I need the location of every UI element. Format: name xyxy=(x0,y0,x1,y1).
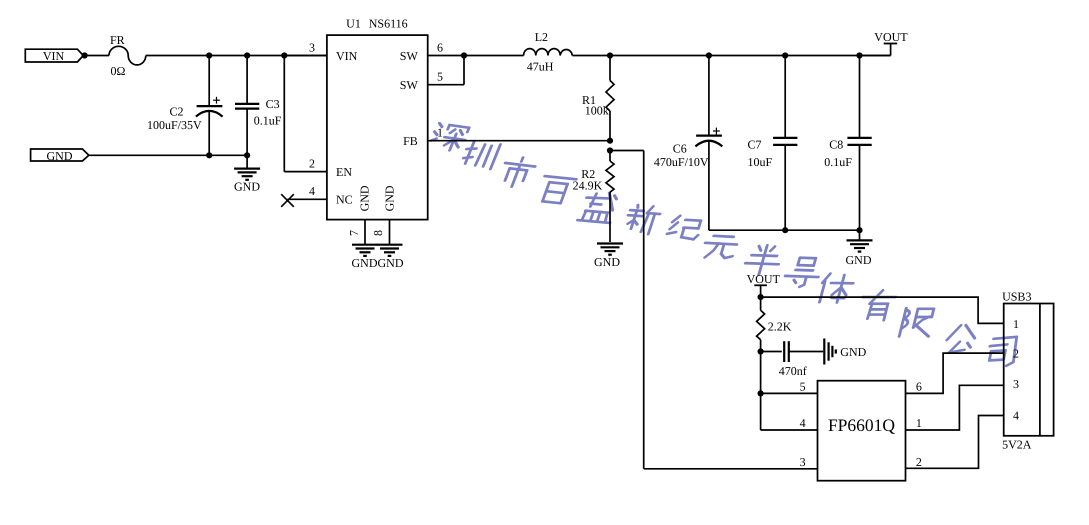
svg-text:5: 5 xyxy=(800,380,806,394)
node C8 top xyxy=(856,52,862,58)
port GND (input) xyxy=(31,149,89,163)
capacitor C6 xyxy=(654,56,722,231)
connector USB3 box xyxy=(1002,289,1054,451)
watermark char 7 (ji) xyxy=(666,215,704,239)
watermark char 14 (gong) xyxy=(944,325,978,353)
svg-text:4: 4 xyxy=(309,184,315,198)
wire FB to FP pin3 vertical xyxy=(643,151,645,469)
svg-text:0Ω: 0Ω xyxy=(111,64,126,78)
watermark char 15 (si) xyxy=(986,337,1019,367)
node C2 bottom xyxy=(206,152,212,158)
pin 4 wire FP xyxy=(761,416,818,430)
node C7 bottom xyxy=(782,227,788,233)
node after VIN xyxy=(82,52,88,58)
svg-text:4: 4 xyxy=(800,416,806,430)
svg-text:6: 6 xyxy=(437,40,443,54)
watermark char 5 (sheng) xyxy=(578,191,620,223)
svg-text:FB: FB xyxy=(403,134,418,148)
svg-text:2: 2 xyxy=(309,156,315,170)
pin label GND vertical 1 xyxy=(357,185,371,211)
svg-text:GND: GND xyxy=(382,185,396,211)
watermark char 9 (ban) xyxy=(742,245,784,276)
USB pin 1 xyxy=(1013,317,1019,331)
node EN branch xyxy=(281,52,287,58)
node VOUT branch xyxy=(758,294,764,300)
resistor FR (fuse 0ohm) xyxy=(109,33,146,78)
pin 6 SW wire xyxy=(400,40,464,63)
node cap branch xyxy=(758,348,764,354)
wire top rail to VOUT xyxy=(610,55,891,57)
ground sideways xyxy=(824,339,866,365)
wire L2 to node xyxy=(572,55,610,57)
pin 3 VIN wire xyxy=(284,40,357,63)
wire SW to L2 xyxy=(464,55,524,57)
pin 4 NC wire xyxy=(288,184,353,207)
node R2 top xyxy=(607,147,613,153)
ground under C3 xyxy=(234,155,260,193)
svg-text:1: 1 xyxy=(916,416,922,430)
svg-text:GND: GND xyxy=(594,255,620,269)
watermark char 4 (bai) xyxy=(536,176,577,204)
capacitor C8 xyxy=(824,56,871,231)
svg-text:10uF: 10uF xyxy=(748,155,773,169)
pin 5 wire FP xyxy=(761,380,818,394)
svg-text:470uF/10V: 470uF/10V xyxy=(654,155,709,169)
svg-text:FR: FR xyxy=(110,33,125,47)
svg-text:0.1uF: 0.1uF xyxy=(824,155,852,169)
svg-text:VOUT: VOUT xyxy=(747,272,781,286)
resistor R 2.2K xyxy=(757,297,792,351)
svg-text:5: 5 xyxy=(437,70,443,84)
wire EN drop xyxy=(283,56,285,172)
pin 1 FB wire xyxy=(403,126,610,149)
svg-text:NS6116: NS6116 xyxy=(369,16,408,30)
wire GND rail xyxy=(89,154,247,156)
svg-text:C7: C7 xyxy=(748,138,762,152)
wire down to pin4 xyxy=(760,393,762,430)
svg-text:EN: EN xyxy=(336,165,352,179)
node pin5 branch xyxy=(758,390,764,396)
node C3 bottom xyxy=(244,152,250,158)
wire FB to FP pin3 horizontal xyxy=(644,468,818,470)
node L2-R1 xyxy=(607,52,613,58)
svg-text:FP6601Q: FP6601Q xyxy=(828,415,895,435)
capacitor C7 xyxy=(748,56,798,231)
svg-text:2.2K: 2.2K xyxy=(768,319,792,333)
node SW join xyxy=(461,52,467,58)
resistor R1 xyxy=(582,56,614,141)
svg-text:7: 7 xyxy=(347,230,361,236)
inductor L2 xyxy=(524,30,573,73)
wire caps bottom rail xyxy=(709,229,860,231)
USB pin 4 xyxy=(1013,409,1019,423)
resistor R2 xyxy=(573,151,614,243)
watermark char 11 (ti) xyxy=(817,274,856,303)
svg-text:100uF/35V: 100uF/35V xyxy=(147,118,202,132)
pin label GND vertical 2 xyxy=(382,185,396,211)
node C3 top xyxy=(244,52,250,58)
svg-text:24.9K: 24.9K xyxy=(573,178,603,192)
svg-text:100k: 100k xyxy=(585,103,609,117)
svg-text:3: 3 xyxy=(1013,377,1019,391)
svg-text:U1: U1 xyxy=(346,16,361,30)
svg-text:GND: GND xyxy=(357,185,371,211)
capacitor C2 xyxy=(147,56,223,156)
node C2 top xyxy=(206,52,212,58)
ground under C8 xyxy=(846,230,873,267)
svg-text:L2: L2 xyxy=(535,30,548,44)
svg-text:5V2A: 5V2A xyxy=(1002,437,1032,451)
watermark char 13 (xian) xyxy=(899,308,935,336)
svg-text:GND: GND xyxy=(840,345,866,359)
svg-text:VIN: VIN xyxy=(336,49,358,63)
svg-text:8: 8 xyxy=(371,230,385,236)
svg-text:C2: C2 xyxy=(169,105,183,119)
wire to pin5 xyxy=(760,352,762,394)
svg-text:USB3: USB3 xyxy=(1002,289,1031,303)
svg-text:GND: GND xyxy=(234,180,260,194)
wire FB branch xyxy=(610,150,644,152)
watermark company name xyxy=(428,123,1018,367)
ground pin 8 xyxy=(377,245,403,256)
svg-text:0.1uF: 0.1uF xyxy=(254,113,282,127)
watermark char 1 (shen) xyxy=(428,123,470,152)
svg-text:GND: GND xyxy=(846,253,872,267)
pin 1 wire FP xyxy=(906,385,1004,430)
watermark char 6 (xin) xyxy=(623,205,663,235)
pin 8 wire xyxy=(371,220,390,245)
svg-text:2: 2 xyxy=(916,455,922,469)
pin 7 wire xyxy=(347,220,365,245)
capacitor 470nf xyxy=(761,341,824,378)
node C8 bottom xyxy=(856,227,862,233)
svg-text:4: 4 xyxy=(1013,409,1019,423)
svg-text:2: 2 xyxy=(1013,347,1019,361)
watermark char 3 (shi) xyxy=(497,156,538,189)
op-amp U1 NS6116 box xyxy=(327,16,428,219)
svg-text:1: 1 xyxy=(437,126,443,140)
svg-text:C6: C6 xyxy=(673,142,687,156)
node C6 top xyxy=(706,52,712,58)
svg-text:VIN: VIN xyxy=(43,49,65,63)
svg-text:GND: GND xyxy=(47,149,73,163)
port VIN xyxy=(25,49,83,63)
svg-text:47uH: 47uH xyxy=(527,59,554,73)
svg-text:470nf: 470nf xyxy=(779,364,807,378)
svg-text:SW: SW xyxy=(400,78,419,92)
pin 2 EN wire xyxy=(284,156,352,179)
USB pin 3 xyxy=(1013,377,1019,391)
terminal VOUT top xyxy=(860,30,909,56)
svg-text:NC: NC xyxy=(336,193,353,207)
wire FR to U1 VIN xyxy=(146,55,327,57)
svg-text:3: 3 xyxy=(800,455,806,469)
watermark char 10 (dao) xyxy=(782,257,824,287)
pin 6 wire FP xyxy=(906,353,1004,394)
node C7 top xyxy=(782,52,788,58)
svg-text:SW: SW xyxy=(400,49,419,63)
svg-text:1: 1 xyxy=(1013,317,1019,331)
pin 3 wire FP label xyxy=(800,455,806,469)
svg-text:C8: C8 xyxy=(829,138,843,152)
watermark char 2 (zhen) xyxy=(460,140,500,169)
pin 5 SW wire xyxy=(400,56,464,93)
watermark char 12 (you) xyxy=(857,290,898,320)
terminal VOUT 2 xyxy=(747,272,781,297)
USB pin 2 xyxy=(1013,347,1019,361)
watermark char 8 (yuan) xyxy=(701,235,739,258)
ground pin 7 xyxy=(352,245,378,256)
pin 2 wire FP xyxy=(906,416,1004,469)
wire VIN to FR xyxy=(85,55,109,57)
svg-text:C3: C3 xyxy=(266,97,280,111)
node FB xyxy=(607,138,613,144)
svg-text:GNDGND: GNDGND xyxy=(352,256,404,270)
svg-text:3: 3 xyxy=(309,40,315,54)
svg-text:6: 6 xyxy=(916,380,922,394)
op-amp U2 FP6601Q box xyxy=(818,381,906,481)
wire VOUT to USB1 xyxy=(761,297,1004,323)
ground under R2 xyxy=(594,244,623,270)
capacitor C3 xyxy=(235,56,282,156)
no-connect X xyxy=(281,194,294,207)
label GNDGND xyxy=(352,256,404,270)
svg-text:VOUT: VOUT xyxy=(874,30,908,44)
